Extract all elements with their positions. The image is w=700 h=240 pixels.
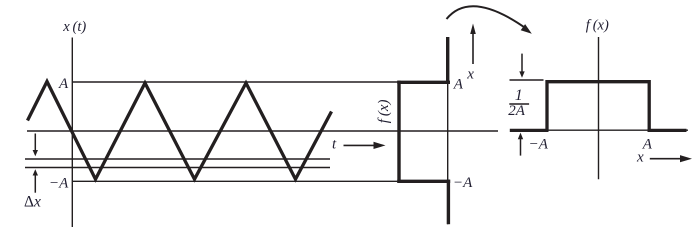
svg-text:2A: 2A [508,103,526,119]
t axis arrow [344,144,376,146]
svg-text:x: x [466,66,474,82]
lower delta-x slice line [25,167,330,169]
limiter curve: bottom horizontal step [397,180,450,183]
down arrow to 1/2A level [521,54,523,72]
pdf zero tail right [648,129,687,132]
right plot x axis [543,129,688,131]
triangular wave x(t) [28,82,332,180]
svg-text:f (x): f (x) [586,17,609,33]
limiter curve: left vertical transition [397,81,400,183]
svg-text:1: 1 [515,87,523,104]
+A reference line [72,81,399,83]
svg-text:A: A [58,76,69,92]
down arrow to delta-x slice [34,134,36,152]
svg-text:−A: −A [529,137,549,153]
upper delta-x slice line [25,158,330,160]
limiter curve: top horizontal step [397,81,450,84]
svg-text:f (x): f (x) [376,99,392,123]
up arrow to axis level [520,139,522,156]
svg-text:−A: −A [49,176,69,192]
extension line at 1/2A level [510,79,544,81]
fraction bar [509,103,529,105]
-A reference line [72,180,399,182]
right plot vertical axis [598,37,600,179]
middle x axis arrow (up) [472,31,474,64]
svg-text:A: A [453,76,464,92]
middle plot thin vertical axis [447,37,449,224]
zero line (t axis) [27,130,498,132]
pdf zero tail left [510,129,549,132]
left plot y-axis [71,38,73,228]
limiter curve: top saturation vertical [446,37,449,84]
x axis arrow (right plot) [650,158,681,160]
svg-text:Δx: Δx [24,193,41,210]
svg-text:x: x [636,150,644,166]
pdf rectangle (uniform density) [547,82,649,131]
limiter curve: bottom saturation vertical [447,180,450,225]
curved arrow between plots [447,6,528,29]
up arrow to delta-x slice [34,175,36,193]
svg-text:x (t): x (t) [62,19,86,35]
svg-text:−A: −A [453,175,473,191]
